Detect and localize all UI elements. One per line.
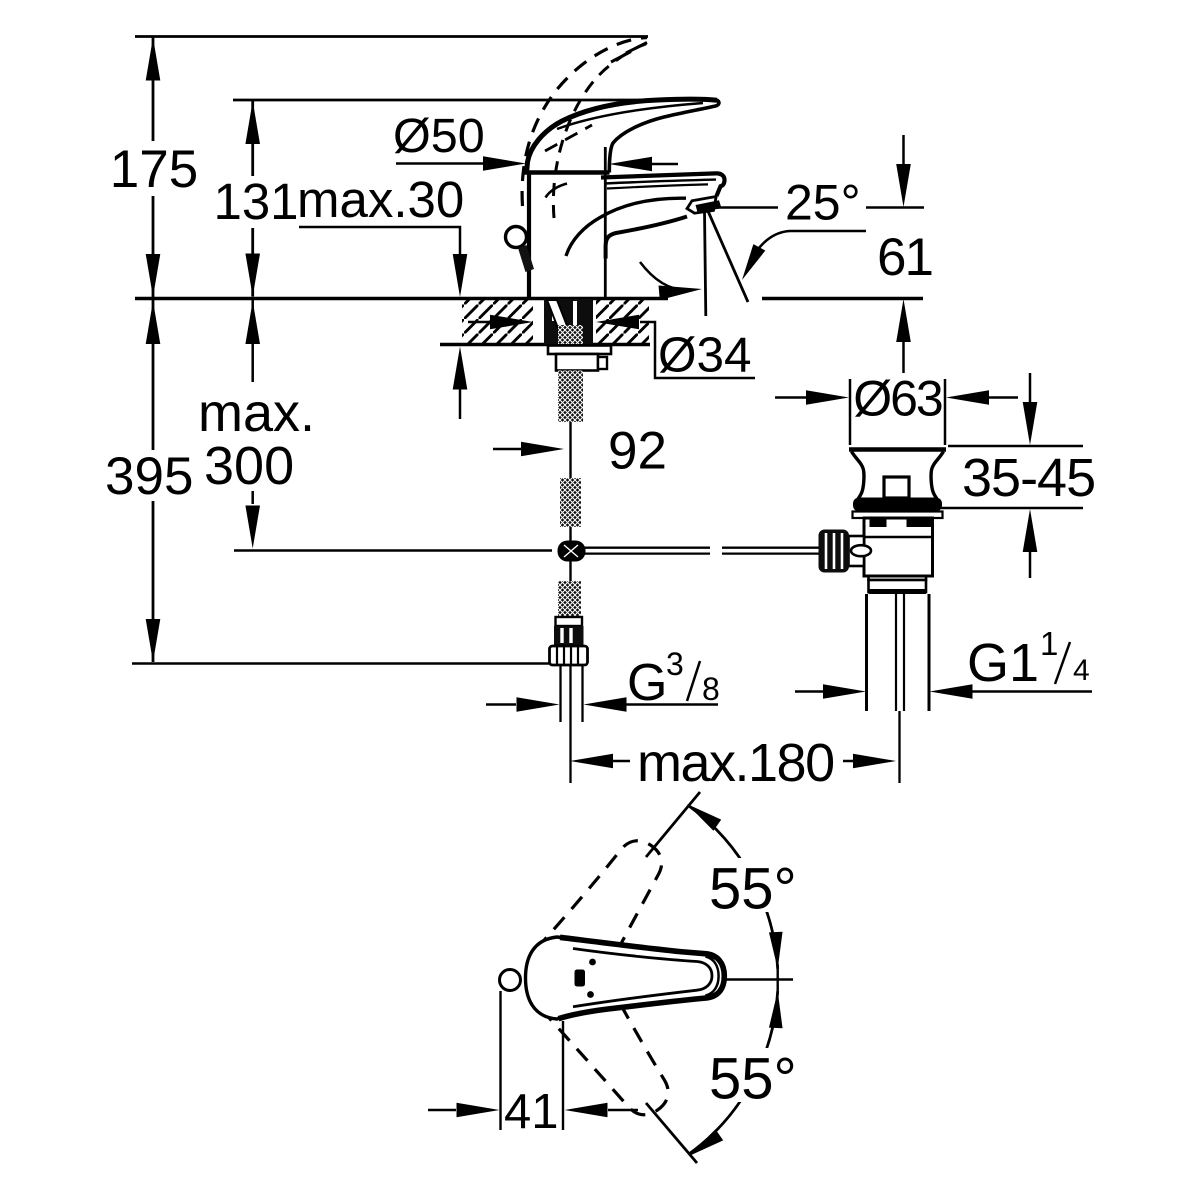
top view pivot extension line — [499, 991, 501, 1130]
counter underside line — [440, 343, 650, 347]
spout inner line 1 — [605, 180, 716, 184]
dim O63 extension bars — [850, 379, 945, 445]
drain flange top — [849, 447, 946, 451]
dim O50 arrow left — [396, 156, 526, 171]
svg-text:300: 300 — [204, 436, 294, 496]
drain tailpipe inner lines — [896, 594, 904, 711]
dim 35-45 arrows — [1023, 373, 1038, 578]
drain tailpipe walls — [867, 594, 930, 711]
dim O63 arrows — [775, 390, 1018, 405]
drain tee boss — [849, 536, 865, 566]
dim 92 arrow — [493, 442, 564, 457]
dim 395 vertical line — [146, 300, 161, 662]
svg-text:131: 131 — [213, 173, 298, 230]
svg-text:1: 1 — [1040, 625, 1058, 662]
svg-text:max.30: max.30 — [297, 171, 464, 228]
leader from max.180 to top view — [646, 792, 700, 857]
hose end nut G3/8 — [550, 646, 588, 665]
svg-text:25°: 25° — [785, 175, 861, 231]
spout top edge — [601, 173, 725, 196]
drain neck dark band — [869, 589, 927, 594]
shank diagonal wedge — [547, 300, 573, 341]
dim 41 extension lines — [562, 1021, 564, 1130]
top view handle thick rim — [559, 937, 725, 1018]
drain collar — [853, 512, 943, 519]
svg-text:G: G — [627, 654, 667, 712]
drain neck — [869, 580, 927, 592]
lever inner highlight line — [557, 103, 703, 129]
spout underside curve — [606, 217, 687, 259]
drain center line — [898, 711, 900, 783]
top view pivot circle — [500, 970, 521, 991]
svg-text:55°: 55° — [709, 1047, 797, 1112]
dashed lever tip strokes — [611, 43, 647, 63]
shank braid lower — [558, 325, 583, 344]
dim 25deg curved leader with arrow — [736, 231, 866, 283]
drain flange cone sides — [852, 452, 944, 500]
top view handle outline — [526, 937, 725, 1019]
angle tick mark — [777, 965, 779, 994]
water stream line vertical — [705, 211, 706, 316]
lever handle top edge — [527, 99, 718, 173]
svg-text:35-45: 35-45 — [962, 448, 1095, 508]
supply hose braid 3 — [558, 581, 581, 617]
swivel arc arrow under spout — [640, 262, 703, 300]
aerator insert dark — [696, 200, 722, 212]
dim 131 vertical line — [245, 100, 260, 297]
horizontal pull rod linkage — [582, 548, 820, 554]
top view handle dot marks — [589, 959, 596, 966]
faucet body left edge — [527, 172, 531, 298]
dim 41 arrows — [428, 1103, 638, 1118]
aerator housing — [687, 197, 716, 214]
svg-text:3: 3 — [666, 646, 684, 682]
pull rod joint stem — [569, 527, 571, 581]
counter top hatched left — [462, 300, 533, 343]
svg-text:max.: max. — [198, 383, 315, 443]
cartridge cap top line — [525, 170, 610, 175]
supply hose braid 2 — [560, 478, 581, 527]
svg-text:395: 395 — [105, 447, 193, 506]
dim max.300 vertical line — [245, 300, 260, 549]
angle arc lower — [685, 991, 784, 1162]
counter top surface line — [135, 297, 923, 301]
dashed cap arc fragments — [545, 125, 592, 151]
mounting shank dark — [544, 299, 593, 345]
spout inner line 2 — [607, 184, 708, 188]
angle ray lower — [646, 1103, 697, 1163]
dim 61 vertical line — [896, 135, 911, 373]
svg-text:Ø34: Ø34 — [658, 328, 752, 383]
body cap hook curve — [546, 184, 568, 198]
dashed lever raised position outer curve — [522, 38, 647, 207]
hose thread extension lines — [561, 665, 583, 722]
reference line hose bottom — [132, 662, 551, 665]
reference line top (raised lever height) — [135, 35, 648, 38]
svg-text:61: 61 — [877, 228, 932, 287]
reference line lever tip height — [233, 99, 718, 102]
hose fitting dark block — [554, 626, 584, 645]
pull rod tee joint — [558, 541, 586, 562]
reference line pull rod level — [234, 549, 552, 552]
dim 35-45 reference lines — [941, 446, 1083, 508]
supply hose braid 1 — [558, 371, 583, 423]
water stream line slanted — [707, 210, 748, 303]
top view mid cap arc — [706, 957, 719, 996]
drain body slots — [870, 520, 932, 528]
mounting nut side tab — [598, 357, 607, 369]
dim max.180 arrows — [570, 754, 896, 769]
top view handle inner line — [573, 949, 712, 1007]
drain plug pin — [884, 477, 909, 498]
svg-text:max.180: max.180 — [637, 733, 834, 793]
washer under counter — [548, 346, 611, 355]
faucet body right edge — [604, 147, 607, 298]
pull rod upper — [569, 422, 571, 478]
dim 175 vertical line — [146, 37, 161, 298]
svg-text:175: 175 — [110, 140, 198, 199]
drain o-ring band — [853, 498, 942, 512]
svg-text:G1: G1 — [967, 633, 1039, 693]
mounting nut — [556, 354, 598, 371]
drain rod pivot ball — [851, 545, 871, 556]
hose center line — [569, 665, 571, 783]
svg-text:8: 8 — [702, 671, 720, 707]
angle arc upper — [683, 798, 784, 969]
dim O50 arrow right — [609, 157, 678, 172]
dim max.30 leader and arrows at counter — [299, 227, 467, 419]
dim 25deg reference lines — [706, 206, 924, 209]
dim G 1 1/4 label — [967, 625, 1090, 693]
spout body S-curve — [566, 198, 686, 256]
svg-text:4: 4 — [1073, 654, 1090, 687]
dim G 3/8 arrows — [486, 697, 718, 712]
dashed lever raised position inner curve — [553, 43, 650, 219]
drain body lower step — [864, 576, 933, 580]
drain body mid line — [864, 536, 933, 538]
white knockouts for 55 labels — [703, 858, 803, 1102]
svg-text:Ø63: Ø63 — [853, 371, 942, 427]
dim G 1 1/4 arrows — [795, 684, 1092, 699]
hose collar band — [556, 617, 583, 626]
center line right of handle — [724, 978, 793, 980]
dashed handle rotated up — [536, 826, 683, 992]
counter top hatched right — [596, 300, 649, 343]
dim G 3/8 label — [627, 646, 720, 712]
dim O34 arrows at mounting hole — [468, 315, 755, 378]
svg-text:92: 92 — [608, 422, 667, 481]
dashed handle rotated down — [540, 966, 687, 1132]
drain pull knob — [506, 227, 527, 248]
lever handle tip and lower edge — [609, 100, 719, 172]
svg-text:41: 41 — [504, 1085, 559, 1139]
shank white slits — [554, 301, 575, 329]
drain pull knob stem — [518, 245, 534, 272]
svg-text:Ø50: Ø50 — [393, 109, 485, 163]
svg-text:55°: 55° — [709, 857, 797, 922]
drain knurled nut — [819, 530, 850, 573]
drain valve body — [864, 518, 933, 576]
